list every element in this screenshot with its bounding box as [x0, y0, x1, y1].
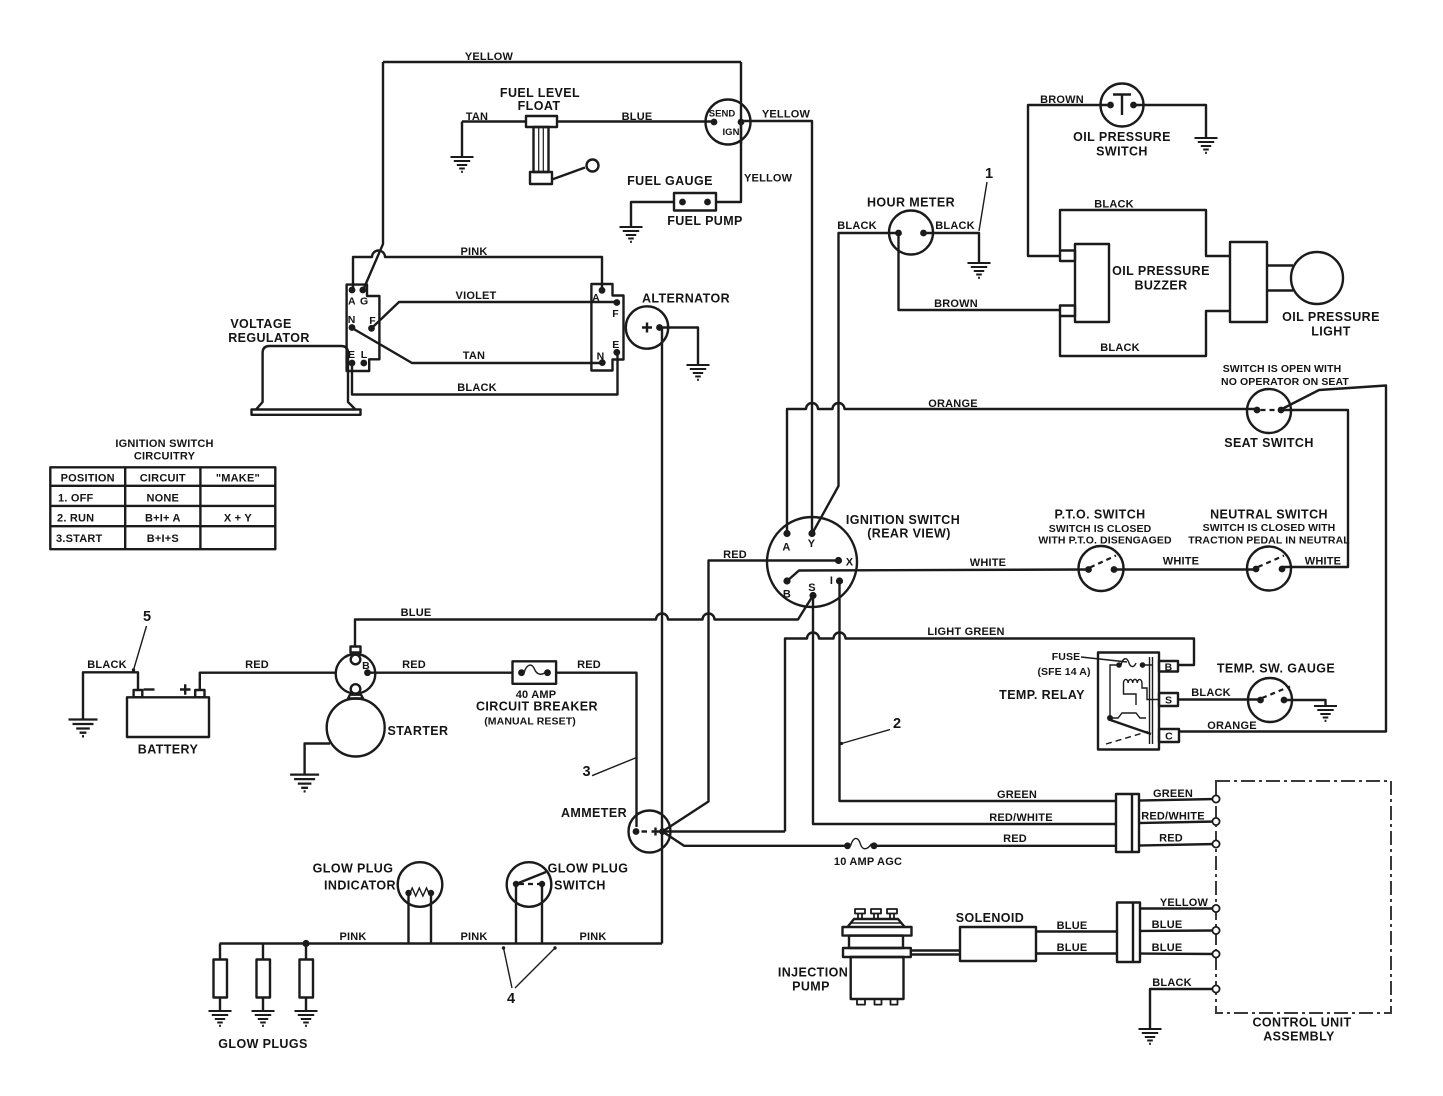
svg-text:TEMP. RELAY: TEMP. RELAY — [999, 688, 1085, 702]
svg-text:RED: RED — [245, 659, 269, 671]
svg-text:ALTERNATOR: ALTERNATOR — [642, 292, 730, 306]
glow plug 1 — [214, 944, 228, 1012]
svg-text:WHITE: WHITE — [1163, 556, 1199, 568]
ground glow plug 1 — [209, 1011, 232, 1026]
control unit terminals — [1212, 795, 1219, 992]
fuel gauge — [706, 62, 751, 145]
svg-text:FUSE: FUSE — [1052, 651, 1080, 663]
ground fuel pump — [620, 227, 643, 242]
svg-text:BLACK: BLACK — [1094, 199, 1134, 211]
svg-text:WHITE: WHITE — [1305, 556, 1341, 568]
starter motor — [327, 699, 385, 757]
wire red ammeter through fuse to connector — [663, 832, 1117, 846]
ground glow plug 2 — [252, 1011, 275, 1026]
svg-text:NONE: NONE — [147, 493, 180, 505]
svg-text:RED/WHITE: RED/WHITE — [1141, 811, 1205, 823]
svg-text:RED: RED — [1159, 833, 1183, 845]
wire blue connector to terminal 1 — [1140, 929, 1216, 932]
svg-text:(REAR VIEW): (REAR VIEW) — [867, 527, 951, 541]
svg-text:G: G — [360, 296, 368, 308]
svg-text:LIGHT GREEN: LIGHT GREEN — [927, 626, 1004, 638]
svg-text:C: C — [1165, 731, 1173, 743]
svg-text:VOLTAGE: VOLTAGE — [230, 317, 291, 331]
wire blue connector to terminal 2 — [1140, 952, 1216, 955]
svg-text:I: I — [830, 575, 833, 587]
wire alternator to ground — [660, 328, 699, 366]
wire blue solenoid top — [1036, 930, 1117, 932]
svg-text:Y: Y — [808, 538, 816, 550]
svg-text:(MANUAL RESET): (MANUAL RESET) — [484, 716, 576, 728]
svg-text:TEMP. SW. GAUGE: TEMP. SW. GAUGE — [1217, 662, 1335, 676]
svg-text:BLUE: BLUE — [1057, 920, 1088, 932]
svg-text:LIGHT: LIGHT — [1311, 325, 1351, 339]
starter solenoid — [336, 647, 376, 699]
battery — [127, 684, 209, 737]
svg-text:N: N — [597, 351, 605, 363]
svg-text:ORANGE: ORANGE — [1207, 720, 1256, 732]
ground battery — [69, 720, 98, 737]
svg-text:YELLOW: YELLOW — [465, 51, 514, 63]
leader fuse — [1081, 657, 1127, 662]
svg-text:2: 2 — [893, 716, 901, 732]
svg-text:SEAT SWITCH: SEAT SWITCH — [1224, 436, 1314, 450]
ground temp gauge — [1314, 706, 1337, 721]
neutral switch — [1247, 547, 1291, 591]
wire yellow top — [364, 62, 741, 288]
svg-text:SWITCH IS CLOSED: SWITCH IS CLOSED — [1049, 523, 1152, 535]
connector block top — [1116, 794, 1139, 852]
svg-text:YELLOW: YELLOW — [1160, 897, 1209, 909]
wire orange ignition-A to seat switch — [787, 403, 1257, 534]
connector block bottom — [1117, 903, 1140, 963]
temp relay internals: armature — [1150, 657, 1153, 744]
svg-text:POSITION: POSITION — [61, 473, 115, 485]
svg-text:BLUE: BLUE — [1152, 919, 1183, 931]
temp relay internals: contact bar — [1106, 713, 1151, 744]
wire seat lever to temp relay C (orange) — [1179, 386, 1386, 732]
ground glow plug 3 — [295, 1011, 318, 1026]
svg-text:A: A — [348, 296, 356, 308]
oil pressure buzzer body — [1060, 242, 1267, 322]
leader line 3 — [592, 758, 637, 776]
svg-text:RED: RED — [402, 659, 426, 671]
leader lines 4 — [504, 948, 556, 988]
svg-text:F: F — [612, 308, 619, 320]
svg-text:STARTER: STARTER — [388, 724, 449, 738]
svg-text:CIRCUIT BREAKER: CIRCUIT BREAKER — [476, 700, 598, 714]
wire black buzzer bottom — [1060, 311, 1230, 356]
svg-text:S: S — [808, 582, 816, 594]
wire white ignition-B to pto switch — [787, 570, 1089, 582]
svg-text:RED: RED — [577, 659, 601, 671]
wire fuel pump left to ground — [631, 202, 674, 227]
wire red-white ignition-S to connector — [813, 596, 1116, 825]
svg-text:RED: RED — [1003, 833, 1027, 845]
svg-text:(SFE 14 A): (SFE 14 A) — [1037, 666, 1090, 678]
svg-text:OIL PRESSURE: OIL PRESSURE — [1073, 130, 1171, 144]
wire blue solenoid bottom — [1036, 952, 1117, 954]
wire red ignition-X to ammeter — [663, 561, 839, 832]
wire black hour meter left — [813, 233, 899, 533]
svg-text:REGULATOR: REGULATOR — [228, 331, 310, 345]
circuit breaker — [513, 661, 557, 684]
svg-text:CONTROL UNIT: CONTROL UNIT — [1252, 1016, 1351, 1030]
wire light green — [785, 633, 1194, 832]
voltage regulator connector — [347, 285, 380, 371]
solenoid — [960, 927, 1036, 961]
svg-text:BLUE: BLUE — [622, 111, 653, 123]
wire starter to ground — [305, 744, 330, 775]
glow plug switch — [507, 862, 552, 943]
svg-text:3: 3 — [582, 764, 590, 780]
wire red battery to starter — [200, 673, 336, 690]
svg-text:OIL PRESSURE: OIL PRESSURE — [1282, 310, 1380, 324]
svg-text:IGNITION SWITCH: IGNITION SWITCH — [115, 438, 213, 450]
temp relay box — [1098, 653, 1179, 750]
svg-text:X + Y: X + Y — [224, 513, 252, 525]
wire pink bus — [220, 942, 663, 944]
wire white pto to neutral — [1114, 568, 1256, 570]
svg-text:FUEL PUMP: FUEL PUMP — [667, 214, 743, 228]
wire green ignition-I to connector — [840, 581, 1117, 801]
svg-text:10 AMP AGC: 10 AMP AGC — [834, 856, 902, 868]
ground hour meter — [968, 263, 991, 278]
temp relay internals: fuse — [1110, 659, 1152, 718]
wire black hour meter right to ground — [924, 233, 980, 263]
svg-text:RED: RED — [723, 549, 747, 561]
svg-text:SEND: SEND — [709, 109, 736, 120]
leader line 5 — [134, 626, 147, 670]
svg-text:PUMP: PUMP — [792, 980, 830, 994]
svg-text:NO OPERATOR ON SEAT: NO OPERATOR ON SEAT — [1221, 376, 1349, 388]
pto switch — [1079, 546, 1124, 591]
ignition switch — [767, 517, 857, 607]
svg-text:RED/WHITE: RED/WHITE — [989, 812, 1053, 824]
svg-text:A: A — [592, 292, 600, 304]
fuel level float — [526, 116, 599, 184]
wire temp gauge to ground — [1284, 700, 1326, 706]
svg-text:FUEL LEVEL: FUEL LEVEL — [500, 86, 580, 100]
svg-text:IGN: IGN — [723, 127, 740, 138]
svg-text:A: A — [782, 542, 790, 554]
wire brown oil switch left — [1028, 105, 1111, 256]
svg-text:BLACK: BLACK — [1152, 977, 1192, 989]
svg-text:WHITE: WHITE — [970, 557, 1006, 569]
alternator connector — [591, 284, 623, 371]
svg-text:BLUE: BLUE — [401, 607, 432, 619]
oil pressure light bulb — [1267, 252, 1343, 304]
svg-text:5: 5 — [143, 609, 151, 625]
alternator — [626, 306, 668, 348]
ammeter — [629, 811, 671, 853]
glow plug 3 — [300, 944, 314, 1012]
svg-text:IGNITION SWITCH: IGNITION SWITCH — [846, 513, 960, 527]
ground alternator — [687, 365, 710, 380]
svg-text:VIOLET: VIOLET — [456, 290, 497, 302]
svg-text:B+I+ A: B+I+ A — [145, 513, 181, 525]
svg-text:BATTERY: BATTERY — [138, 743, 199, 757]
svg-text:1. OFF: 1. OFF — [58, 493, 94, 505]
svg-text:B: B — [783, 589, 791, 601]
svg-text:BLACK: BLACK — [837, 220, 877, 232]
wire blue starter to ignition-S — [355, 596, 813, 647]
svg-text:GLOW PLUGS: GLOW PLUGS — [218, 1037, 307, 1051]
wire black relay-S to temp gauge — [1178, 698, 1261, 700]
temp relay internals: coil leads — [1124, 683, 1160, 705]
svg-text:INJECTION: INJECTION — [778, 966, 848, 980]
seat switch — [1247, 389, 1291, 433]
wire red-white connector to terminal — [1139, 822, 1216, 824]
svg-text:OIL PRESSURE: OIL PRESSURE — [1112, 264, 1210, 278]
svg-text:BLACK: BLACK — [87, 659, 127, 671]
svg-text:B+I+S: B+I+S — [147, 533, 179, 545]
table text — [56, 473, 260, 546]
svg-text:ORANGE: ORANGE — [928, 398, 977, 410]
svg-text:S: S — [1165, 695, 1172, 707]
wire black battery to ground — [83, 672, 138, 719]
svg-text:1: 1 — [985, 166, 993, 182]
wire red connector to terminal — [1139, 844, 1216, 846]
svg-text:PINK: PINK — [339, 931, 366, 943]
ground oil switch — [1195, 138, 1218, 153]
wire tan VR-N to alternator-N — [352, 328, 602, 363]
ground starter — [290, 775, 319, 792]
svg-text:ASSEMBLY: ASSEMBLY — [1263, 1030, 1335, 1044]
wire tan to float — [462, 122, 526, 158]
hour meter — [889, 211, 933, 255]
svg-text:PINK: PINK — [460, 246, 487, 258]
svg-text:TAN: TAN — [463, 350, 485, 362]
wire yellow gauge right to ignition — [742, 121, 812, 533]
wire green connector to terminal — [1139, 799, 1216, 801]
temp relay internals: coil — [1124, 679, 1142, 683]
svg-text:N: N — [348, 314, 356, 326]
svg-text:GREEN: GREEN — [1153, 788, 1193, 800]
svg-text:X: X — [846, 557, 854, 569]
wire red breaker to ammeter — [556, 673, 636, 827]
svg-text:CIRCUITRY: CIRCUITRY — [134, 451, 196, 463]
wire black VR-E to alternator-E — [352, 352, 618, 394]
svg-text:BUZZER: BUZZER — [1134, 279, 1187, 293]
fuse 10 amp agc — [844, 838, 877, 849]
svg-text:BROWN: BROWN — [934, 298, 978, 310]
wire violet VR-F to alternator-F — [372, 302, 617, 328]
wire oil switch right to ground — [1134, 105, 1207, 138]
svg-text:B: B — [362, 660, 370, 672]
wire yellow connector to terminal — [1140, 907, 1216, 909]
fuel pump — [674, 193, 716, 211]
wire black buzzer top — [1060, 210, 1230, 256]
svg-text:AMMETER: AMMETER — [561, 806, 627, 820]
svg-text:HOUR METER: HOUR METER — [867, 196, 955, 210]
wire white seat switch down to neutral — [1281, 410, 1348, 567]
svg-text:TAN: TAN — [466, 111, 488, 123]
svg-text:BLACK: BLACK — [935, 220, 975, 232]
svg-text:2. RUN: 2. RUN — [57, 513, 94, 525]
svg-text:NEUTRAL SWITCH: NEUTRAL SWITCH — [1210, 508, 1328, 522]
wire ammeter to light-green junction — [663, 830, 786, 832]
svg-text:E: E — [348, 349, 355, 361]
glow plug 2 — [257, 944, 271, 1012]
svg-text:BLACK: BLACK — [457, 382, 497, 394]
svg-text:SWITCH IS CLOSED WITH: SWITCH IS CLOSED WITH — [1203, 522, 1336, 534]
svg-text:BLUE: BLUE — [1057, 942, 1088, 954]
svg-text:INDICATOR: INDICATOR — [324, 879, 396, 893]
svg-text:PINK: PINK — [460, 931, 487, 943]
ground control unit — [1139, 1029, 1162, 1044]
svg-text:YELLOW: YELLOW — [744, 173, 793, 185]
svg-text:3.START: 3.START — [56, 533, 103, 545]
wire blue float to gauge — [557, 120, 714, 122]
table ignition circuitry — [50, 467, 275, 549]
wire yellow gauge down to pump — [716, 122, 741, 202]
svg-text:BROWN: BROWN — [1040, 94, 1084, 106]
wire red alternator down to ammeter and pink bus — [661, 328, 663, 944]
svg-text:B: B — [1165, 662, 1173, 674]
wire red starter to breaker — [368, 672, 513, 674]
wire black control unit to ground — [1150, 989, 1216, 1029]
svg-text:4: 4 — [507, 991, 515, 1007]
temp sw gauge — [1248, 678, 1292, 722]
svg-text:E: E — [612, 339, 619, 351]
svg-text:FUEL GAUGE: FUEL GAUGE — [627, 174, 713, 188]
voltage regulator body — [252, 346, 361, 415]
svg-text:GLOW PLUG: GLOW PLUG — [313, 862, 394, 876]
rod pump to solenoid — [911, 951, 960, 955]
svg-text:SWITCH: SWITCH — [554, 879, 606, 893]
ground float tan — [451, 157, 474, 172]
leader line 1 — [979, 182, 987, 231]
svg-text:SWITCH: SWITCH — [1096, 145, 1148, 159]
leader line 2 — [842, 730, 891, 744]
svg-text:L: L — [361, 349, 368, 361]
oil pressure switch — [1101, 84, 1144, 127]
control unit assembly box — [1216, 781, 1391, 1013]
injection pump — [843, 909, 912, 1005]
svg-text:BLACK: BLACK — [1100, 342, 1140, 354]
svg-text:CIRCUIT: CIRCUIT — [140, 473, 186, 485]
solenoid B terminal — [364, 669, 371, 676]
svg-text:PINK: PINK — [579, 931, 606, 943]
svg-text:WITH P.T.O. DISENGAGED: WITH P.T.O. DISENGAGED — [1038, 535, 1172, 547]
svg-text:GREEN: GREEN — [997, 789, 1037, 801]
svg-text:SWITCH IS OPEN WITH: SWITCH IS OPEN WITH — [1223, 363, 1342, 375]
svg-text:"MAKE": "MAKE" — [216, 473, 260, 485]
svg-text:P.T.O. SWITCH: P.T.O. SWITCH — [1054, 508, 1145, 522]
svg-text:BLACK: BLACK — [1191, 687, 1231, 699]
junction pink bus — [302, 940, 309, 947]
wire pink VR-A to alternator-A — [353, 251, 602, 289]
svg-text:BLUE: BLUE — [1152, 942, 1183, 954]
svg-text:FLOAT: FLOAT — [518, 99, 561, 113]
wire brown hour meter to buzzer — [899, 233, 1061, 310]
svg-text:YELLOW: YELLOW — [762, 109, 811, 121]
svg-text:SOLENOID: SOLENOID — [956, 911, 1024, 925]
svg-text:TRACTION PEDAL IN NEUTRAL: TRACTION PEDAL IN NEUTRAL — [1188, 535, 1350, 547]
svg-text:GLOW PLUG: GLOW PLUG — [548, 862, 629, 876]
glow plug indicator — [398, 862, 443, 943]
